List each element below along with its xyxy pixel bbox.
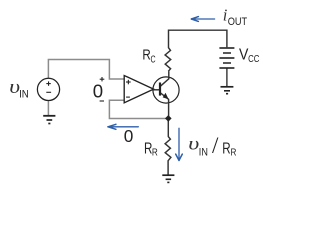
svg-text:CC: CC bbox=[248, 54, 259, 65]
svg-text:C: C bbox=[151, 54, 156, 65]
svg-text:IN: IN bbox=[199, 147, 208, 159]
svg-text:R: R bbox=[152, 147, 158, 158]
svg-text:υ: υ bbox=[188, 134, 199, 154]
svg-text:0: 0 bbox=[93, 81, 103, 102]
svg-text:0: 0 bbox=[124, 126, 134, 146]
svg-text:IN: IN bbox=[19, 88, 29, 100]
svg-text:OUT: OUT bbox=[228, 16, 248, 28]
svg-text:R: R bbox=[231, 148, 237, 159]
svg-text:/: / bbox=[212, 133, 219, 158]
svg-text:R: R bbox=[222, 140, 230, 157]
